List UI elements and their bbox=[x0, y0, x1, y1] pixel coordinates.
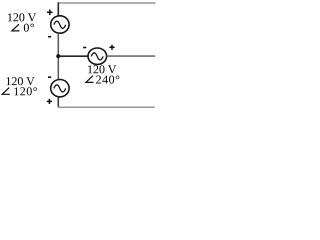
minus sign V1 bbox=[48, 36, 51, 38]
source V2 120V 120deg circle bbox=[51, 80, 69, 97]
plus sign V2 bbox=[47, 99, 52, 104]
junction node dot bbox=[56, 54, 60, 58]
source V3 120V 240deg circle bbox=[88, 48, 107, 64]
wire V2 bottom vertical bbox=[57, 97, 59, 107]
wire top rail (node A to right terminal) bbox=[58, 2, 156, 4]
svg-text:0°: 0° bbox=[23, 21, 35, 35]
wire junction to V3 bbox=[58, 55, 88, 57]
wire left vertical between sources bbox=[57, 33, 59, 80]
minus sign V2 bbox=[48, 76, 51, 78]
plus sign V3 bbox=[109, 45, 114, 50]
source V1 120V 0deg circle bbox=[51, 16, 69, 33]
sine symbol V2 bbox=[54, 85, 66, 92]
sine symbol V3 bbox=[91, 53, 103, 60]
sine symbol V1 bbox=[54, 21, 66, 28]
wire top-left corner vertical bbox=[57, 2, 59, 16]
angle symbol V3 bbox=[86, 76, 94, 83]
angle symbol V1 bbox=[12, 24, 20, 31]
plus sign V1 bbox=[47, 10, 53, 16]
minus sign V3 bbox=[83, 47, 86, 49]
wire V3 to right terminal bbox=[107, 55, 156, 57]
angle symbol V2 bbox=[2, 88, 10, 95]
svg-text:240°: 240° bbox=[96, 72, 121, 86]
svg-text:120°: 120° bbox=[13, 84, 38, 98]
wire bottom rail bbox=[58, 106, 155, 108]
